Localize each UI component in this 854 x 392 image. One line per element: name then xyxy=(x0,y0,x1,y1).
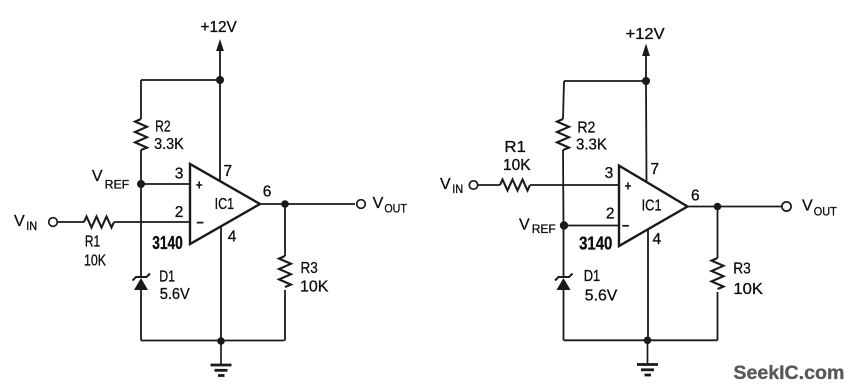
wire left rail upper right xyxy=(563,81,564,119)
wire output to R3 xyxy=(284,204,286,256)
wire supply stem left xyxy=(219,50,221,80)
+12V arrow right xyxy=(642,44,650,57)
resistor R2 right xyxy=(557,119,569,150)
wire pin7 right xyxy=(645,81,648,182)
resistor R3 xyxy=(279,256,291,287)
svg-text:5.6V: 5.6V xyxy=(585,287,618,304)
svg-text:10K: 10K xyxy=(84,253,106,270)
wire R3 lower right xyxy=(717,292,719,340)
svg-text:OUT: OUT xyxy=(814,205,838,219)
svg-text:5.6V: 5.6V xyxy=(160,286,190,303)
svg-text:4: 4 xyxy=(228,229,237,246)
wire pin7 xyxy=(219,80,221,181)
svg-text:IN: IN xyxy=(26,219,37,233)
svg-text:3.3K: 3.3K xyxy=(576,137,607,154)
op-amp IC1 left xyxy=(190,164,260,244)
svg-text:R2: R2 xyxy=(155,118,171,135)
wire left rail mid xyxy=(140,150,142,184)
svg-text:2: 2 xyxy=(175,204,184,221)
svg-text:V: V xyxy=(14,213,25,230)
wire Vin to R1 xyxy=(58,221,85,223)
wire bottom rail right xyxy=(564,339,718,341)
wire below zener xyxy=(140,290,142,341)
plus sign left opamp xyxy=(196,181,202,188)
svg-text:V: V xyxy=(440,176,451,193)
resistor R2 xyxy=(135,119,147,150)
svg-text:4: 4 xyxy=(653,231,662,248)
svg-text:10K: 10K xyxy=(300,278,329,295)
node ground right xyxy=(644,337,652,345)
svg-text:REF: REF xyxy=(105,178,130,192)
node ground left xyxy=(217,337,225,345)
svg-text:OUT: OUT xyxy=(384,202,407,216)
svg-text:REF: REF xyxy=(532,222,556,236)
svg-text:V: V xyxy=(373,195,384,212)
minus sign right opamp xyxy=(622,225,629,227)
wire left rail mid right xyxy=(562,150,565,226)
svg-text:R1: R1 xyxy=(85,233,100,250)
svg-text:SeekIC.com: SeekIC.com xyxy=(733,363,844,384)
svg-text:R3: R3 xyxy=(301,260,318,277)
zener diode D1 left xyxy=(133,274,151,291)
node dot supply right xyxy=(642,77,650,85)
svg-text:IC1: IC1 xyxy=(642,198,662,215)
ground symbol right xyxy=(637,340,658,375)
wire R3 lower xyxy=(284,290,286,341)
svg-text:+12V: +12V xyxy=(626,26,665,43)
wire Vin to R1 right xyxy=(478,184,500,186)
terminal Vout left xyxy=(357,200,366,209)
wire pin4 xyxy=(220,226,222,341)
svg-text:3140: 3140 xyxy=(152,233,183,253)
svg-text:7: 7 xyxy=(651,161,660,178)
wire bottom rail xyxy=(141,340,285,342)
wire pin4 right xyxy=(647,229,649,340)
wire top rail left circuit xyxy=(141,79,220,81)
svg-text:2: 2 xyxy=(606,206,615,223)
wire below zener right xyxy=(563,290,565,340)
plus sign right opamp xyxy=(625,182,631,189)
resistor R1 right xyxy=(500,180,530,191)
svg-text:+12V: +12V xyxy=(201,19,238,36)
resistor R3 right xyxy=(712,258,724,289)
wire pin2 right xyxy=(564,225,619,227)
wire left rail upper xyxy=(140,80,142,119)
wire top rail right circuit xyxy=(564,80,646,82)
svg-text:D1: D1 xyxy=(159,268,175,285)
svg-text:V: V xyxy=(92,168,103,185)
wire supply stem right xyxy=(645,54,647,81)
svg-text:3: 3 xyxy=(175,166,184,183)
svg-text:6: 6 xyxy=(691,188,700,205)
resistor R1 xyxy=(84,217,114,228)
node dot supply left xyxy=(216,76,224,84)
svg-text:R2: R2 xyxy=(577,120,595,137)
svg-text:3: 3 xyxy=(605,165,614,182)
svg-text:R3: R3 xyxy=(733,260,751,277)
wire pin3 right xyxy=(530,184,619,186)
ground symbol left xyxy=(211,341,232,376)
wire output to R3 right xyxy=(717,207,719,259)
minus sign left opamp xyxy=(197,222,204,224)
svg-text:10K: 10K xyxy=(503,157,531,174)
wire output xyxy=(260,203,355,205)
svg-text:V: V xyxy=(802,198,813,215)
svg-text:D1: D1 xyxy=(584,268,601,285)
wire left rail lower right xyxy=(563,226,565,278)
wire left rail lower xyxy=(140,184,142,277)
node output right xyxy=(714,203,722,211)
svg-text:3140: 3140 xyxy=(579,234,612,254)
svg-text:7: 7 xyxy=(224,163,233,180)
wire pin3 xyxy=(141,183,190,185)
svg-text:R1: R1 xyxy=(504,139,526,156)
terminal Vin left xyxy=(49,218,58,227)
svg-text:V: V xyxy=(519,217,530,234)
wire pin2 xyxy=(114,221,190,223)
wire output right xyxy=(688,206,783,208)
svg-text:6: 6 xyxy=(263,184,272,201)
op-amp IC1 right xyxy=(619,166,688,246)
node VREF right xyxy=(560,221,568,229)
svg-text:IC1: IC1 xyxy=(215,196,235,213)
svg-text:3.3K: 3.3K xyxy=(154,136,184,153)
zener diode D1 right xyxy=(555,274,573,291)
terminal Vout right xyxy=(782,202,791,211)
+12V arrow left xyxy=(216,39,224,51)
terminal Vin right xyxy=(469,181,477,189)
node output left xyxy=(281,200,289,208)
node VREF left xyxy=(137,180,145,188)
svg-text:10K: 10K xyxy=(733,281,763,298)
svg-text:IN: IN xyxy=(452,182,463,196)
